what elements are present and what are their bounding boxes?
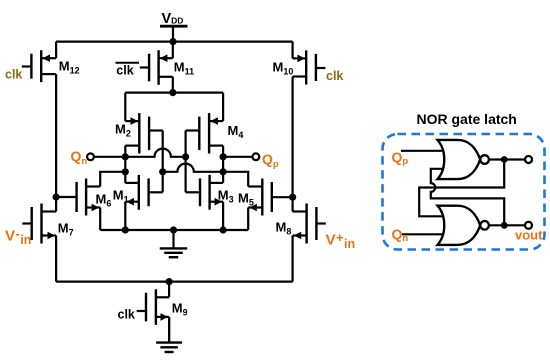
- NOR gate U2 (lower): [438, 206, 481, 245]
- wire right bottom (M8 source down): [292, 236, 294, 282]
- wire feedback lower-out to upper-in with hop: [431, 169, 504, 226]
- clkbar overline: [116, 62, 140, 64]
- svg-text:V+in: V+in: [326, 230, 356, 251]
- wire cross link with hop (M2 gate to Qp): [163, 164, 223, 172]
- node tail junction: [166, 278, 173, 285]
- transistor M3: [186, 175, 224, 210]
- wire M5 drain link: [223, 172, 248, 187]
- node M1 source junction: [122, 226, 129, 233]
- svg-text:vout: vout: [515, 228, 543, 243]
- VDD supply bar: [160, 25, 188, 28]
- transistor M8: [293, 204, 326, 244]
- transistor M12: [22, 50, 56, 82]
- svg-text:V-in: V-in: [5, 226, 31, 247]
- svg-text:clk: clk: [326, 69, 343, 83]
- transistor M9: [137, 289, 169, 325]
- node Qp-M4 drain: [220, 153, 227, 160]
- svg-text:M6: M6: [96, 192, 112, 209]
- svg-text:VDD: VDD: [162, 11, 184, 27]
- transistor M2: [125, 113, 162, 154]
- svg-text:NOR gate latch: NOR gate latch: [417, 111, 517, 127]
- wire Qn line with hop: [94, 149, 186, 157]
- node cross-Qp: [220, 168, 227, 175]
- ground (latch core): [160, 230, 188, 257]
- svg-text:M11: M11: [174, 60, 194, 77]
- wire left rail (M12 drain to M7 drain): [55, 74, 57, 211]
- NOR gate U1 (upper): [438, 140, 481, 179]
- wire right rail upper: [292, 42, 294, 59]
- svg-text:M3: M3: [218, 188, 234, 205]
- wire left bottom (M7 source down): [55, 236, 57, 282]
- wire mid rail: [125, 91, 223, 93]
- node lower output junction: [501, 222, 508, 229]
- wire upper NOR output: [489, 158, 525, 160]
- svg-text:M9: M9: [172, 301, 188, 318]
- svg-text:Qn: Qn: [392, 226, 409, 244]
- node Qn-M2 drain: [122, 153, 129, 160]
- node mid rail junction: [169, 89, 176, 96]
- node M6 link-Qn: [122, 168, 129, 175]
- svg-text:M5: M5: [238, 191, 254, 208]
- svg-text:clk: clk: [116, 64, 133, 78]
- transistor M10: [293, 50, 326, 84]
- wire M9 source down: [168, 317, 170, 343]
- wire M11 drain down: [172, 77, 174, 93]
- svg-text:M4: M4: [228, 123, 244, 140]
- svg-text:clk: clk: [118, 308, 135, 322]
- wire Qp line: [223, 156, 252, 158]
- wire M3 source down: [222, 202, 224, 230]
- node cross-M2 gate: [159, 168, 166, 175]
- transistor M1: [125, 175, 162, 210]
- wire VDD stem: [172, 26, 174, 41]
- wire right rail (M10 drain to M8 drain): [292, 77, 294, 212]
- svg-text:M12: M12: [59, 59, 80, 76]
- terminal vout circle: [525, 222, 532, 229]
- wire latch Qn input: [402, 233, 444, 235]
- svg-text:M10: M10: [273, 60, 294, 77]
- node upper output junction: [501, 156, 508, 163]
- wire feedback upper-out to lower-in: [419, 160, 504, 217]
- svg-text:Qn: Qn: [71, 148, 88, 167]
- node M5 gate tap: [289, 194, 296, 201]
- terminal Qp circle: [253, 153, 260, 160]
- wire NMOS source rail: [100, 229, 248, 231]
- wire M5 source down: [247, 208, 249, 231]
- node M3 source junction: [220, 226, 227, 233]
- node VDD rail junction: [169, 38, 176, 45]
- ground (M9): [156, 317, 182, 352]
- svg-text:Qp: Qp: [262, 151, 279, 170]
- wire M6 drain link: [100, 172, 125, 187]
- wire latch Qp input: [401, 150, 444, 152]
- wire left rail upper: [55, 42, 57, 59]
- svg-text:M7: M7: [58, 221, 74, 238]
- wire M2 drain vertical: [124, 146, 126, 183]
- wire M11 source up: [172, 42, 174, 59]
- terminal upper output circle: [525, 156, 532, 163]
- transistor M4: [186, 113, 224, 154]
- svg-text:clk: clk: [5, 68, 22, 82]
- transistor M5: [248, 179, 292, 216]
- transistor M11: [140, 50, 173, 85]
- wire M9 drain up: [168, 282, 170, 298]
- wire M4 drain vertical: [222, 146, 224, 183]
- wire M2/M1 gate vertical: [162, 131, 164, 193]
- wire M4/M3 gate vertical: [185, 131, 187, 193]
- wire bottom rail: [56, 281, 293, 283]
- svg-text:M2: M2: [115, 122, 131, 139]
- wire M6 source down: [99, 208, 101, 231]
- wire lower NOR output: [489, 224, 525, 226]
- svg-text:M8: M8: [276, 220, 292, 237]
- node M6 gate tap: [53, 193, 60, 200]
- wire top rail: [56, 40, 293, 42]
- NOR latch dashed box: [383, 134, 545, 250]
- node Qn-M3 gate: [182, 153, 189, 160]
- transistor M7: [22, 204, 56, 244]
- terminal Qn circle: [87, 153, 94, 160]
- transistor M6: [56, 179, 100, 216]
- wire M2 source up: [124, 93, 126, 122]
- wire M1 source down: [124, 202, 126, 230]
- wire M4 source up: [222, 93, 224, 122]
- node ground junction: [170, 226, 177, 233]
